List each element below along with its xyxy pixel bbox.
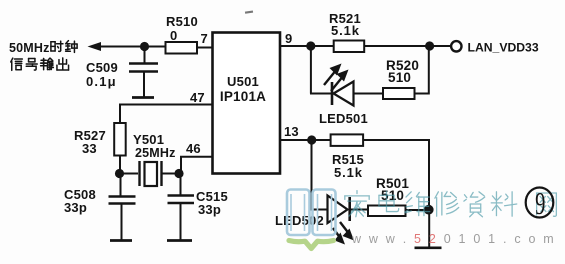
LED501 emission arrows (up-right) (324, 64, 349, 92)
node C (junction Y501 / C515 / pin46) (174, 169, 183, 178)
resistor R527 (vertical) (114, 123, 126, 156)
label LED502 (275, 213, 324, 228)
wire R527 to node B (119, 156, 121, 175)
LED502 emission arrows (down-right) (333, 222, 354, 245)
label clock line2 (xin hao shu chu) (11, 58, 69, 70)
arrowhead clock output (points left) (88, 42, 102, 51)
wire R515 to corner G (363, 139, 430, 206)
crystal Y501 (140, 161, 162, 186)
wire U501 pin 13 to node F (280, 139, 312, 141)
wire node D down to LED501 (310, 46, 332, 94)
resistor R501 (368, 206, 406, 217)
label C509 value 0.1u (86, 74, 117, 89)
label IP101A (220, 89, 266, 104)
wire C508 to ground (121, 204, 123, 241)
svg-text:33p: 33p (64, 200, 87, 215)
wire R520 to node E (415, 46, 429, 95)
label C508 (64, 187, 96, 202)
node E (junction R521 / R520 / LAN_VDD33) (425, 41, 434, 50)
ground C509 (132, 96, 154, 99)
pin 13 label (284, 124, 299, 139)
capacitor C509 (129, 64, 158, 72)
watermark url www.520101.com (decorative) (351, 232, 556, 246)
wire Y501 to node C (162, 173, 180, 175)
wire node F to R515 (312, 139, 331, 141)
scan speck (decorative) (245, 10, 253, 13)
svg-text:IP101A: IP101A (220, 89, 266, 104)
label R521 value 5.1k (331, 23, 360, 38)
resistor R515 (331, 134, 364, 146)
svg-text:50MHz: 50MHz (9, 41, 50, 55)
label LAN_VDD33 (468, 41, 539, 55)
label LED501 (319, 111, 368, 126)
capacitor C508 (109, 197, 136, 204)
pin 9 label (285, 31, 292, 46)
node A (junction R510 / C509 / output) (140, 42, 149, 51)
ground main (415, 247, 442, 250)
wire clock output to node A (97, 46, 145, 48)
wire R510 to U501 pin 7 (197, 47, 213, 49)
pin 7 label (201, 31, 208, 46)
svg-text:9: 9 (285, 31, 292, 46)
resistor R521 (334, 41, 365, 53)
node G (junction R501 / R515 branch / ground) (424, 205, 434, 215)
label R521 (329, 11, 361, 26)
node D (junction pin9 / R521 / LED501) (306, 41, 315, 50)
svg-text:Y501: Y501 (133, 132, 164, 147)
terminal LAN_VDD33 (open circle) (451, 41, 461, 51)
wire node B down to C508 (120, 174, 122, 197)
resistor R510 (166, 42, 198, 54)
wire U501 pin 47 to R527 (120, 104, 213, 124)
svg-text:33p: 33p (198, 202, 221, 217)
ground C515 (167, 239, 192, 242)
wire node A to R510 (145, 46, 167, 48)
wire node G to ground (428, 210, 430, 248)
wire node C down to C515 (180, 174, 182, 196)
label R510 (166, 14, 198, 29)
capacitor C515 (168, 196, 195, 204)
figure number 9 (circled) (526, 186, 554, 222)
label R527 (74, 128, 106, 143)
LED501 triangle (points left) (334, 82, 354, 106)
svg-text:7: 7 (201, 31, 208, 46)
wire LED502 to R501 (350, 209, 368, 211)
LED501 cathode bar (331, 82, 334, 105)
watermark book logo (decorative) (287, 190, 336, 249)
svg-text:9: 9 (535, 186, 545, 222)
label 50MHz clock line1 (50MHz + shi zhong) (9, 41, 77, 55)
node F (junction pin13 / R515 / LED502) (307, 135, 316, 144)
svg-text:13: 13 (284, 124, 299, 139)
svg-text:0: 0 (170, 28, 177, 43)
op-amp U501 IP101A body (213, 33, 281, 174)
label R527 value 33 (82, 141, 97, 156)
label C509 (86, 60, 118, 75)
wire node B to Y501 (120, 173, 139, 175)
svg-text:5.1k: 5.1k (331, 23, 360, 38)
label U501 (227, 74, 259, 89)
label Y501 value 25MHz (135, 146, 176, 160)
svg-text:47: 47 (190, 90, 205, 105)
svg-text:LAN_VDD33: LAN_VDD33 (468, 41, 539, 55)
svg-text:25MHz: 25MHz (135, 146, 176, 160)
label R501 value 510 (381, 188, 404, 203)
wire node E to terminal (430, 45, 451, 47)
pin 47 label (190, 90, 205, 105)
wire node D to R521 (311, 45, 334, 47)
wire C509 to ground (143, 72, 145, 98)
label C508 value 33p (64, 200, 87, 215)
wire LED501 to R520 (354, 93, 384, 95)
wire C515 to ground (180, 203, 182, 240)
svg-text:5.1k: 5.1k (334, 165, 363, 180)
wire node A down to C509 (144, 47, 146, 64)
wire U501 pin 9 to node D (280, 45, 311, 47)
label R501 (376, 176, 409, 191)
LED502 triangle (points right) (328, 196, 348, 224)
wire R501 to node G (406, 209, 429, 211)
label R520 value 510 (388, 70, 411, 85)
LED502 cathode bar (348, 197, 351, 221)
svg-text:33: 33 (82, 141, 97, 156)
node B (junction R527 / Y501 / C508) (115, 169, 124, 178)
svg-text:LED502: LED502 (275, 213, 324, 228)
svg-text:0.1μ: 0.1μ (86, 74, 117, 89)
watermark text jiadian weixiu ziliao wang (decorative) (345, 191, 557, 217)
label R520 (386, 58, 419, 73)
wire node C to U501 pin 46 (180, 156, 213, 174)
label R515 (332, 152, 364, 167)
svg-text:46: 46 (186, 141, 201, 156)
svg-text:w w w . 5 2 0 1 0 1 . c o m: w w w . 5 2 0 1 0 1 . c o m (351, 232, 556, 246)
svg-text:U501: U501 (227, 74, 259, 89)
label C515 (196, 189, 228, 204)
ground C508 (110, 239, 132, 242)
label C515 value 33p (198, 202, 221, 217)
svg-text:R510: R510 (166, 14, 198, 29)
LED502 branch wire from node F (311, 140, 328, 210)
label R510 value 0 (170, 28, 177, 43)
resistor R520 (383, 88, 415, 99)
wire R521 to node E (364, 45, 429, 47)
label R515 value 5.1k (334, 165, 363, 180)
svg-text:510: 510 (388, 70, 411, 85)
svg-text:LED501: LED501 (319, 111, 368, 126)
svg-text:C509: C509 (86, 60, 118, 75)
label Y501 (133, 132, 164, 147)
pin 46 label (186, 141, 201, 156)
